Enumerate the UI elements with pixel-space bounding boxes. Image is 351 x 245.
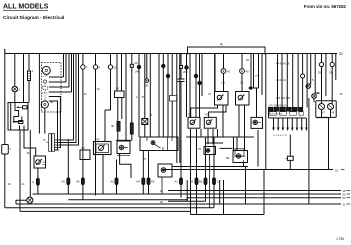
output arrow 2 (277, 118, 280, 131)
svg-text:A3: A3 (151, 180, 155, 184)
output arrow 1 (272, 118, 275, 131)
relay box pair2 right (204, 117, 216, 128)
wire (205, 137, 207, 201)
relay box 5 (158, 164, 172, 194)
output arrow 8 (305, 118, 308, 131)
right labels (318, 72, 323, 75)
connector 2 (12, 86, 18, 92)
rail L3 label (343, 202, 346, 206)
rail L1 label (343, 193, 346, 197)
lamp right (312, 94, 317, 99)
resistor 4 label (32, 70, 34, 74)
junction 240 label (135, 70, 140, 74)
wire with terminal square (180, 54, 182, 80)
relay box4 label (226, 156, 230, 160)
connector 9 (93, 65, 97, 69)
switch label (150, 113, 154, 117)
relay 24 label (116, 87, 120, 91)
fuse row right A-box (180, 140, 182, 198)
cluster tap 4 (49, 54, 72, 93)
output arrow 6 (296, 118, 299, 131)
ignition switch box (8, 103, 28, 131)
svg-text:A: A (220, 42, 223, 47)
svg-text:48: 48 (332, 112, 335, 115)
fuse A2 label (111, 180, 115, 184)
pin label (240, 82, 245, 85)
comb labels row2 (276, 79, 286, 82)
svg-text:14: 14 (22, 182, 25, 186)
svg-text:From vin no. 567262: From vin no. 567262 (304, 4, 347, 9)
wire with junction 305 (149, 54, 151, 138)
nested corner wire 5 (59, 54, 79, 146)
svg-text:171: 171 (221, 82, 226, 85)
motor box label 74 (96, 138, 100, 142)
engine harness wire 2 (281, 54, 283, 108)
svg-text:47: 47 (208, 92, 212, 96)
rail R1 start label (160, 190, 163, 193)
engine harness wire 1 (277, 54, 279, 108)
wire (142, 151, 144, 195)
cluster tap 6 (49, 101, 58, 150)
wire 314 down (309, 98, 314, 204)
svg-text:9: 9 (99, 66, 101, 70)
svg-text:31: 31 (343, 202, 346, 206)
instrument wires (316, 110, 330, 170)
ignition switch contact 2 (12, 121, 23, 124)
relay 24 outputs (118, 98, 122, 142)
svg-text:A6: A6 (76, 180, 80, 184)
wire with connector 40 (241, 54, 243, 92)
wire with junctions pair (163, 54, 172, 138)
junction 305 (145, 79, 149, 83)
bottom rail L1 (33, 193, 341, 195)
fuse A1 (37, 179, 40, 186)
resistor Ra label (111, 124, 115, 128)
junction 200 (185, 66, 188, 69)
wire label 75 (143, 157, 147, 161)
feed wire thick (214, 54, 216, 92)
wire (201, 54, 203, 97)
engine harness wire 4 (292, 54, 294, 108)
svg-text:A4: A4 (136, 180, 140, 184)
link y140.7 (206, 142, 223, 144)
rail riser (219, 180, 221, 204)
fuse B3 (204, 178, 207, 185)
relay pair1 left label (208, 92, 212, 96)
svg-text:305: 305 (144, 84, 149, 88)
figure number LT35 (337, 237, 345, 241)
svg-text:ALL MODELS: ALL MODELS (3, 4, 49, 11)
ignition switch contact 1 (16, 106, 27, 109)
output arrow 5 (291, 118, 294, 131)
lamp tail wire (16, 200, 30, 204)
wire junction 77 (249, 54, 259, 118)
motor box left (94, 142, 112, 155)
connector housing row (269, 108, 303, 112)
fuse A6 (82, 178, 85, 185)
wire to ignition switch (14, 54, 16, 103)
arrow numbering (273, 135, 288, 137)
fuse B2 (195, 178, 198, 185)
capacitor (178, 79, 185, 177)
cluster tap 3 (49, 54, 69, 88)
connector 40 (240, 69, 245, 74)
label 77 (255, 74, 259, 78)
wire (146, 54, 148, 79)
cluster internal items (42, 74, 48, 100)
housing sub boxes (270, 112, 304, 116)
fuse A1 label (32, 180, 34, 184)
wire label (27, 151, 31, 155)
fuse B4 (213, 178, 216, 185)
svg-text:50: 50 (343, 193, 346, 197)
cluster connector comb (46, 134, 59, 152)
rail riser (191, 170, 265, 215)
bus y169.5 end arrow (341, 169, 345, 171)
wire with square 36 (126, 54, 132, 141)
small box 84 (80, 146, 90, 160)
svg-text:77: 77 (255, 74, 259, 78)
right wire 11 (325, 54, 327, 97)
housing bottom rail (269, 111, 307, 118)
rail R1 label (343, 189, 346, 193)
nested corner wire 4 (59, 54, 76, 143)
svg-text:2: 2 (19, 88, 21, 92)
wire with junction 200 (186, 54, 188, 118)
wire ignition feed lamp (29, 130, 31, 197)
junction dot (250, 87, 252, 89)
relay box pair1 left (215, 92, 229, 106)
connector 41 (221, 69, 226, 74)
wire with connector 10 (105, 69, 111, 142)
svg-text:7: 7 (86, 66, 88, 70)
svg-text:84: 84 (82, 146, 86, 150)
switch symbol X (142, 119, 148, 125)
instrument pack box (316, 101, 336, 118)
sensor box6 (204, 147, 216, 208)
svg-text:7: 7 (10, 147, 12, 151)
fuse A5 (67, 178, 70, 185)
connector 29b (330, 62, 334, 66)
cluster tap 2 (49, 54, 66, 83)
rail L1 end arrow (347, 193, 351, 195)
fuse B1 label (175, 180, 179, 184)
control box left wires (177, 54, 180, 164)
bracket A over control box (188, 47, 266, 55)
svg-text:29b: 29b (329, 72, 334, 75)
svg-text:370 376 376: 370 376 376 (270, 114, 283, 116)
label 45 (246, 58, 249, 62)
connector (301, 74, 305, 78)
connector 10 label (114, 66, 118, 70)
comb labels row3 (276, 97, 291, 100)
wire feed relay 24 left (116, 54, 118, 92)
instrument cluster dashed box (42, 63, 62, 113)
engine harness wire 6 with connector (302, 54, 304, 108)
engine harness wire 5 (297, 54, 299, 108)
rail riser (186, 180, 188, 201)
svg-text:171: 171 (240, 82, 245, 85)
relay box pair1 right (236, 92, 250, 106)
wire with connector 9 (95, 54, 97, 196)
rail R1 end arrow (347, 190, 351, 192)
connector diagonal mid (306, 84, 310, 88)
bottom rail L3 (16, 203, 341, 205)
wire with junction (195, 54, 197, 118)
wire L-link motor box (120, 154, 131, 179)
svg-text:41: 41 (227, 70, 231, 74)
warning lamp (27, 197, 33, 203)
svg-text:36: 36 (135, 61, 139, 65)
wire pin labels (136, 96, 145, 99)
relay RL1 (34, 156, 46, 168)
relay box pair2 left (188, 117, 200, 128)
supply bus 30 (5, 49, 337, 54)
svg-text:31: 31 (335, 169, 339, 173)
resistor Rb (130, 123, 133, 134)
right labels2 (329, 72, 334, 75)
subtitle Circuit Diagram - Electrical (3, 15, 64, 21)
output arrow 3 (282, 118, 285, 131)
gauge 1 (42, 66, 50, 74)
svg-text:LT35: LT35 (337, 237, 345, 241)
comb labels row1 (276, 63, 290, 66)
wire (199, 54, 201, 118)
relay pair2 right label (205, 113, 209, 117)
rail segment 201 (168, 200, 206, 202)
svg-text:4: 4 (32, 70, 34, 74)
wire (244, 163, 246, 205)
bus y169.5 end label (335, 169, 339, 173)
wire label 14 (22, 182, 25, 186)
wire (158, 54, 160, 138)
bottom rail R1 (168, 190, 341, 192)
switch wires (144, 54, 146, 138)
right wire 13 (335, 54, 337, 81)
svg-text:44 42 40 38: 44 42 40 38 (276, 63, 290, 66)
svg-text:200: 200 (183, 70, 188, 74)
junction 305 label (144, 84, 149, 88)
junction (198, 81, 201, 84)
relay pair2 left label (188, 113, 192, 117)
svg-text:A: A (136, 96, 138, 99)
wire with fuse A5 (67, 139, 69, 194)
junction (194, 74, 197, 77)
lamp right label (317, 92, 320, 95)
relay RL1 output wire (37, 168, 39, 194)
svg-text:08: 08 (226, 156, 230, 160)
wire right of A-box (265, 54, 267, 170)
wire to relay RL1 (24, 130, 36, 156)
connector 29a (319, 62, 323, 66)
svg-text:1 2 3 4 5 6 7 8: 1 2 3 4 5 6 7 8 (273, 135, 288, 137)
svg-text:48: 48 (343, 189, 346, 193)
svg-text:45: 45 (246, 58, 249, 62)
relay box4 (233, 149, 248, 163)
component on wire (286, 156, 294, 160)
svg-text:29a: 29a (318, 72, 323, 75)
relay box3 (251, 117, 263, 128)
wire (261, 54, 263, 96)
bus label 30 (339, 52, 343, 56)
gauge 2 (41, 101, 48, 108)
horizontal link y137 (186, 136, 254, 138)
wire tick label (97, 87, 101, 91)
wire ignition to bottom rail (19, 130, 21, 211)
svg-text:B1: B1 (190, 180, 194, 184)
svg-text:8: 8 (44, 138, 46, 142)
svg-text:40: 40 (246, 70, 250, 74)
cluster tap 5 (49, 97, 61, 148)
connector 7 (81, 65, 85, 69)
bottom rail L2 (68, 198, 341, 200)
connector 9 label (99, 66, 101, 70)
relay coil wire (148, 151, 150, 195)
terminal 36 (130, 64, 133, 67)
label A (220, 42, 223, 47)
wire (110, 54, 112, 65)
svg-text:48: 48 (160, 190, 163, 193)
link y166.5 (172, 166, 248, 168)
wire (222, 105, 224, 137)
nested corner wire 3 (59, 54, 74, 141)
svg-text:47: 47 (205, 113, 209, 117)
cluster tap 1 (49, 54, 64, 78)
wire 290 down with component (289, 135, 291, 170)
wire (23, 54, 25, 103)
rail L2 end arrow (347, 197, 351, 199)
connector 2 label (19, 88, 21, 92)
rail riser (223, 180, 225, 215)
svg-text:A2: A2 (111, 180, 115, 184)
fuse A3 label (151, 180, 155, 184)
instrument circle 2 (328, 104, 334, 110)
wire feed relay 24 right (121, 54, 123, 92)
engine harness wire 3 (286, 54, 288, 108)
resistor 4 (28, 71, 31, 81)
svg-text:76: 76 (198, 147, 202, 151)
connector 10 (108, 65, 112, 69)
ignition switch wiper (14, 103, 22, 122)
terminal block (170, 96, 178, 102)
gauge 2 label (50, 100, 54, 104)
bus line y169.5 (162, 169, 333, 171)
wire (233, 137, 235, 151)
fuse B3 label (199, 180, 203, 184)
svg-text:54: 54 (343, 196, 346, 200)
motor box right (117, 141, 130, 156)
junction 200 label (183, 70, 188, 74)
svg-text:75: 75 (141, 96, 144, 99)
relay box 24 (115, 91, 125, 98)
motor box output (102, 155, 104, 194)
engine harness wire 7 (306, 54, 308, 108)
pin label (221, 82, 226, 85)
right wire 8 (308, 54, 310, 85)
fuse A2 (115, 178, 118, 185)
svg-text:5: 5 (312, 79, 314, 82)
output arrow 4 (286, 118, 289, 131)
fuse A3 (147, 178, 150, 185)
svg-text:14: 14 (97, 87, 101, 91)
svg-text:45 43 41: 45 43 41 (276, 79, 286, 82)
wide relay box (140, 137, 178, 151)
wire main feed left (4, 54, 6, 208)
right labels3 (312, 79, 314, 82)
pair1 outputs (191, 105, 245, 151)
wire segment (116, 139, 131, 141)
instrument cluster feed wire (38, 54, 40, 134)
cluster bottom feed (44, 108, 46, 134)
junction (162, 64, 165, 67)
svg-text:40: 40 (111, 124, 115, 128)
connector 41 label (227, 70, 231, 74)
svg-text:270 300 305: 270 300 305 (276, 97, 291, 100)
right wire 9 (315, 54, 319, 94)
fuse B1 (180, 178, 183, 185)
output arrow 7 (300, 118, 303, 131)
terminal square (180, 66, 183, 69)
junction 240 (137, 65, 140, 68)
wire label 30 (8, 182, 11, 186)
right margin label (340, 92, 343, 96)
svg-text:16: 16 (27, 151, 31, 155)
comb label 8 (44, 138, 46, 142)
box3 output (257, 130, 259, 167)
svg-text:74: 74 (96, 138, 100, 142)
right wire 12 with connector (331, 54, 333, 104)
rail segment label (160, 201, 163, 204)
svg-text:30: 30 (340, 92, 343, 96)
fuse B2 label (190, 180, 194, 184)
connector 40 label (246, 70, 250, 74)
right wire 10 with connector (321, 54, 323, 104)
bottom rail L4 (5, 207, 214, 209)
fuse A4 (142, 178, 145, 185)
fuse A6 label (76, 180, 80, 184)
svg-text:A1: A1 (175, 180, 179, 184)
bottom rail L5 (20, 210, 191, 212)
fuse A5 label (62, 180, 66, 184)
instrument circle 1 (319, 104, 325, 110)
fuse 7 label (10, 147, 12, 151)
svg-text:47: 47 (322, 112, 325, 115)
title underline (3, 9, 48, 11)
svg-text:B2: B2 (199, 180, 203, 184)
instrument labels (322, 112, 335, 115)
wire (213, 137, 215, 208)
svg-text:30: 30 (8, 182, 11, 186)
wire (189, 54, 191, 118)
svg-text:A: A (32, 180, 34, 184)
svg-text:270 305 300 310: 270 305 300 310 (269, 105, 287, 107)
rail L3 end arrow (347, 203, 351, 205)
svg-text:49: 49 (160, 201, 163, 204)
title ALL MODELS (3, 4, 49, 11)
svg-text:30: 30 (339, 52, 343, 56)
wire with junction 240 (138, 54, 140, 138)
wire with connector 7 (82, 54, 84, 200)
svg-text:49: 49 (317, 92, 320, 95)
svg-text:240: 240 (135, 70, 140, 74)
terminal 36 label (135, 61, 139, 65)
ignition switch internal wire (11, 103, 24, 131)
rail L2 label (343, 196, 346, 200)
svg-text:A5: A5 (62, 180, 66, 184)
svg-text:14: 14 (84, 92, 88, 96)
pair2 outputs (191, 129, 218, 215)
wire (196, 129, 198, 215)
